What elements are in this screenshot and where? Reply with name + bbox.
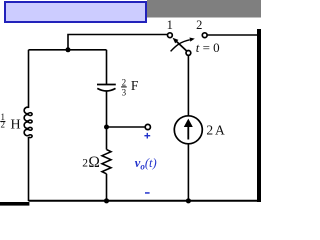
svg-text:t = 0: t = 0 xyxy=(196,40,220,55)
svg-text:F: F xyxy=(131,78,139,93)
svg-text:2: 2 xyxy=(122,77,127,87)
svg-text:H: H xyxy=(11,117,21,132)
svg-text:Ω: Ω xyxy=(88,154,100,171)
svg-text:2: 2 xyxy=(196,18,202,32)
svg-text:2: 2 xyxy=(82,157,88,169)
svg-text:2: 2 xyxy=(0,120,5,130)
svg-text:A: A xyxy=(215,123,225,138)
svg-text:1: 1 xyxy=(167,18,173,32)
svg-text:2: 2 xyxy=(206,123,213,138)
svg-text:3: 3 xyxy=(122,88,127,98)
svg-text:vo(t): vo(t) xyxy=(135,156,157,172)
